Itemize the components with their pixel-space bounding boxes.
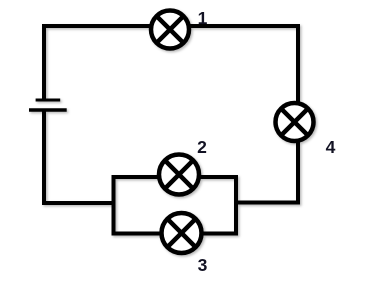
svg-text:4: 4 (326, 137, 336, 157)
svg-text:3: 3 (198, 255, 208, 275)
svg-text:1: 1 (198, 8, 208, 28)
svg-text:2: 2 (197, 137, 207, 157)
